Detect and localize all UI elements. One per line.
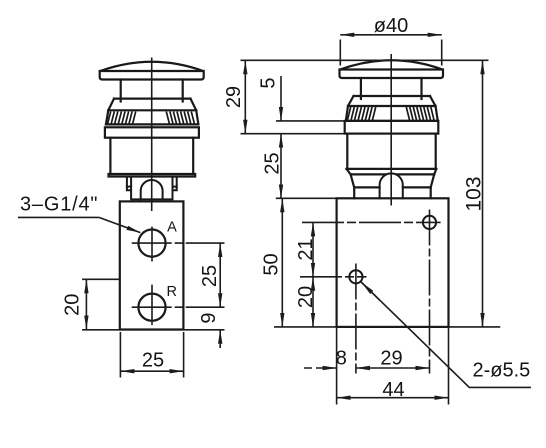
top extension line <box>241 59 489 61</box>
dim 20 line <box>85 279 87 329</box>
stem <box>360 78 362 99</box>
svg-text:2-ø5.5: 2-ø5.5 <box>473 360 531 382</box>
body <box>347 134 437 169</box>
svg-text:29: 29 <box>380 348 402 370</box>
adapter bracket <box>127 177 177 200</box>
ext line ring bottom <box>241 133 345 135</box>
centerline right figure <box>390 54 392 206</box>
svg-text:3–G1/4": 3–G1/4" <box>20 194 98 216</box>
collar top trapezoid <box>348 96 436 106</box>
hatch lines left <box>108 112 136 125</box>
dim 25/9 right line <box>219 243 221 307</box>
body bottom flange trapezoid <box>347 169 437 175</box>
svg-text:25: 25 <box>199 265 221 287</box>
cap flange <box>100 71 204 80</box>
svg-text:20: 20 <box>61 294 83 316</box>
valve block <box>120 201 184 329</box>
svg-text:9: 9 <box>198 312 220 323</box>
leader 3-G1/4 arrow <box>99 217 140 232</box>
arch dome <box>380 173 403 198</box>
bottom flange slab <box>109 174 196 177</box>
ring band <box>345 121 439 134</box>
svg-text:21: 21 <box>295 238 317 260</box>
svg-text:R: R <box>166 284 176 300</box>
svg-text:29: 29 <box>223 86 245 108</box>
bottom dim 25 ext lines <box>119 332 121 378</box>
skirt trapezoid <box>351 174 435 187</box>
block bottom line extended <box>274 326 500 328</box>
hole 2 centerlines <box>300 276 367 278</box>
port A circle <box>138 230 165 257</box>
dim 29 line <box>244 60 246 133</box>
svg-text:8: 8 <box>336 348 347 370</box>
block top line extended <box>276 197 337 199</box>
port R circle <box>138 294 165 321</box>
cap dome <box>340 60 443 69</box>
ring band <box>105 127 199 137</box>
svg-text:103: 103 <box>463 176 486 211</box>
adapter inner slots <box>127 186 177 188</box>
dim 5 outside arrow <box>280 76 282 121</box>
svg-text:44: 44 <box>382 379 404 401</box>
leader 2-o5.5 arrow <box>362 283 380 301</box>
svg-text:25: 25 <box>262 152 284 174</box>
leader 3-G1/4 underline <box>18 216 99 218</box>
dim 9 outside arrow <box>219 330 221 348</box>
port R centerlines <box>132 306 225 308</box>
svg-text:A: A <box>167 219 177 235</box>
dim 29 bottom line <box>356 367 430 369</box>
mushroom cap dome <box>100 62 203 71</box>
dim 8 outside arrow <box>304 367 337 369</box>
mounting hole 1 <box>423 216 436 229</box>
bottom ext lines <box>336 327 338 405</box>
svg-text:20: 20 <box>295 286 317 308</box>
dim 25 line <box>280 134 282 199</box>
bottom dim 25 line <box>120 370 183 372</box>
dim 20 line right <box>312 277 314 327</box>
dim 44 line <box>337 397 449 399</box>
dim o40 ext lines <box>339 40 341 66</box>
dim 20 ext line <box>82 278 120 280</box>
mounting hole 2 <box>349 270 362 283</box>
body <box>110 138 193 174</box>
hatch lines right <box>406 107 434 120</box>
centerline left figure <box>151 58 153 212</box>
hatched band <box>346 106 438 121</box>
valve block side view <box>337 198 449 327</box>
dim 21 line <box>312 222 314 276</box>
svg-text:50: 50 <box>261 253 283 275</box>
svg-text:ø40: ø40 <box>374 15 408 37</box>
hatched band <box>106 110 198 124</box>
dim 50 line <box>281 198 283 327</box>
dim 103 line <box>482 60 484 327</box>
ext line hatch bottom <box>276 120 346 122</box>
cap flange <box>340 70 444 79</box>
collar top trapezoid <box>108 99 196 111</box>
lower band <box>354 187 431 198</box>
dim o40 line <box>340 34 441 36</box>
svg-text:5: 5 <box>258 77 280 88</box>
adapter arch dome <box>141 180 163 199</box>
stem <box>120 80 122 102</box>
hatch lines right <box>166 112 194 125</box>
hole 1 centerlines <box>302 221 441 223</box>
hatch lines left <box>348 107 376 120</box>
svg-text:25: 25 <box>142 349 164 371</box>
leader 2-o5.5 <box>361 282 531 388</box>
block bottom line extended <box>82 329 224 331</box>
port A centerlines <box>132 242 225 244</box>
